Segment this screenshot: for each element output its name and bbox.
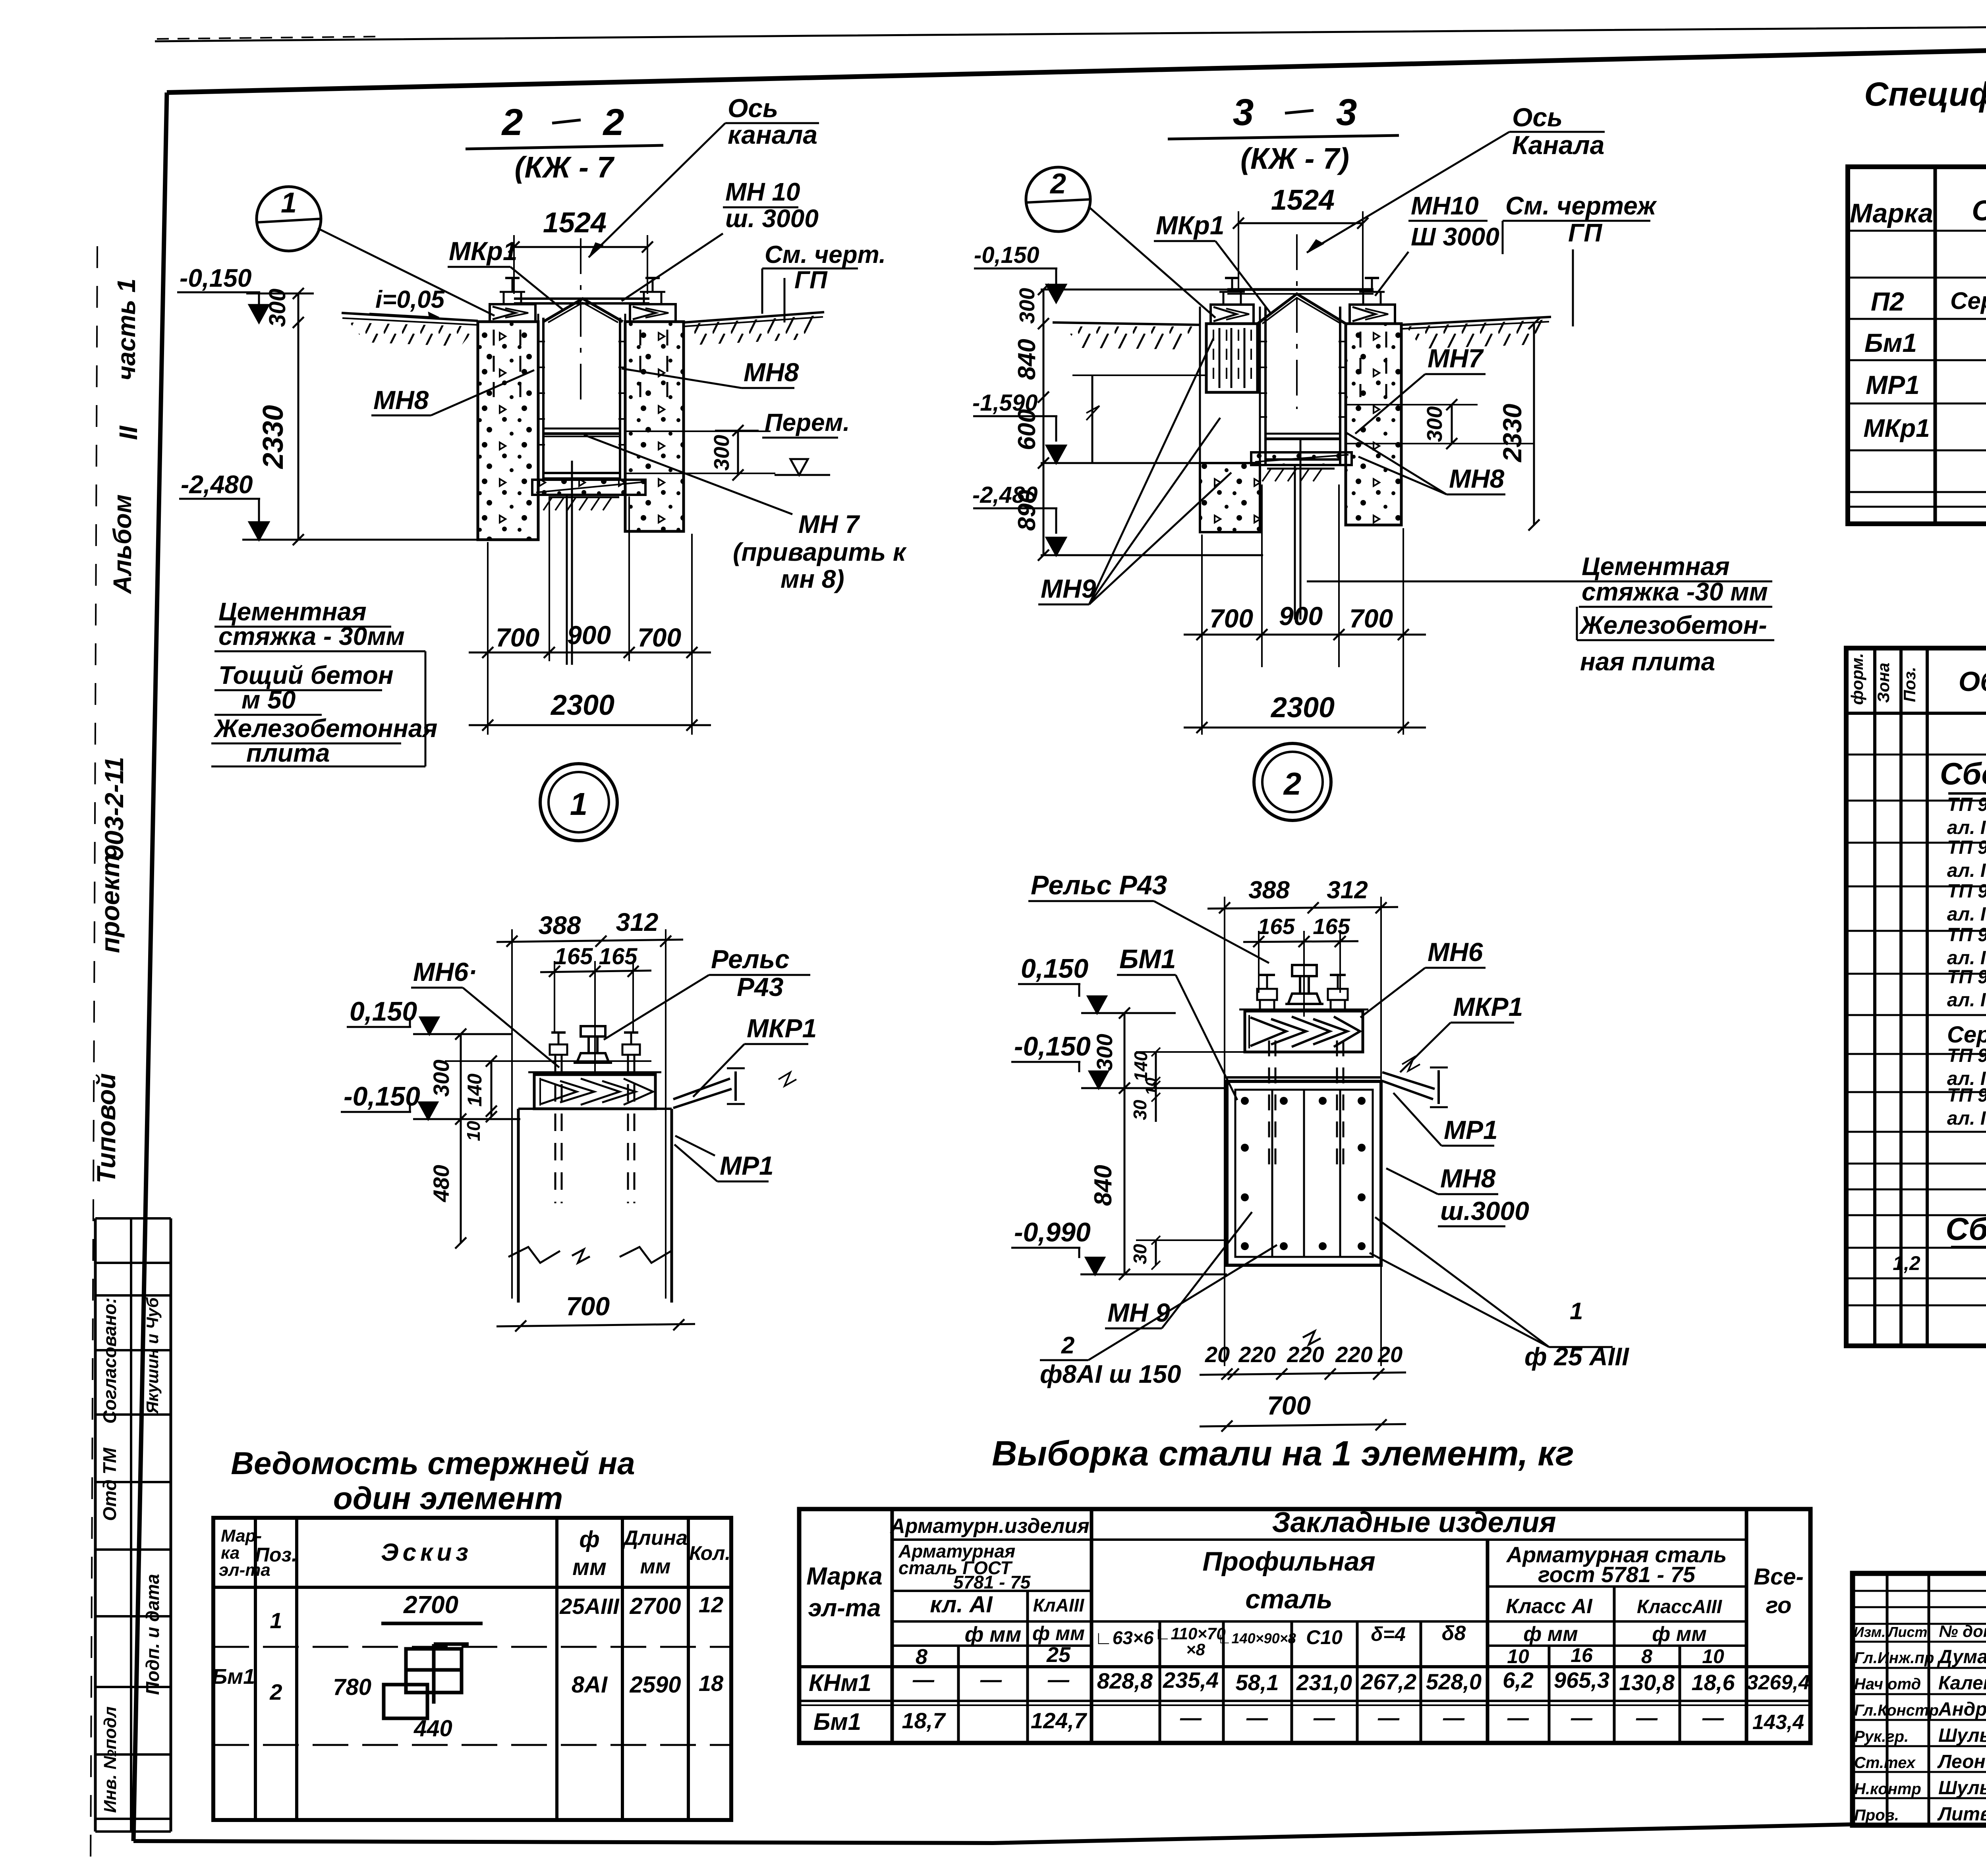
svg-text:Изм.: Изм. bbox=[1854, 1624, 1886, 1640]
svg-text:ф мм: ф мм bbox=[1652, 1623, 1706, 1646]
parts table grid bbox=[1846, 648, 1986, 1346]
section 2-2 inner beams МН7 bbox=[543, 428, 620, 478]
section 2-2 dim 300 right + Перем. bbox=[710, 409, 850, 481]
svg-text:Согласовано:: Согласовано: bbox=[99, 1297, 120, 1424]
svg-text:КлАIII: КлАIII bbox=[1033, 1595, 1085, 1615]
vyborka headers bbox=[806, 1507, 1804, 1669]
svg-text:—: — bbox=[1047, 1668, 1070, 1692]
section 3-3 drain pipe bbox=[1295, 439, 1300, 620]
svg-text:МН8: МН8 bbox=[373, 385, 429, 415]
svg-text:1524: 1524 bbox=[543, 207, 607, 239]
section 3-3 right concrete pier bbox=[1346, 324, 1401, 525]
detail 1 MP1 flange right bbox=[673, 1068, 796, 1156]
svg-text:ал. II ч.2: ал. II ч.2 bbox=[1947, 948, 1986, 969]
svg-text:-0,990: -0,990 bbox=[1014, 1217, 1091, 1247]
section 3-3 ground left bbox=[1053, 322, 1200, 349]
svg-text:Шульгина: Шульгина bbox=[1938, 1778, 1986, 1799]
parts row КЖ-8 Стержни одиночн bbox=[1893, 1246, 1986, 1275]
section 3-3 ground right bbox=[1401, 317, 1551, 349]
svg-text:965,3: 965,3 bbox=[1554, 1668, 1609, 1693]
detail 2 dims 165/165 bbox=[1243, 914, 1358, 1017]
svg-text:900: 900 bbox=[1279, 601, 1323, 631]
spec table row МР1 bbox=[1866, 365, 1986, 406]
svg-text:-2,480: -2,480 bbox=[181, 470, 253, 499]
label МР1 (detail 2) bbox=[1393, 1093, 1498, 1146]
svg-text:700: 700 bbox=[1209, 604, 1253, 633]
parts row МС1 bbox=[1947, 967, 1986, 1013]
svg-text:312: 312 bbox=[1327, 876, 1368, 904]
label Рельс Р43 (detail 2) bbox=[1028, 870, 1269, 963]
svg-text:Гл.Констр: Гл.Констр bbox=[1854, 1702, 1939, 1719]
label См. чертеж ГП (3-3) bbox=[1503, 191, 1657, 326]
svg-text:Марка: Марка bbox=[806, 1563, 882, 1590]
svg-text:2: 2 bbox=[269, 1679, 282, 1704]
label МН8 right (2-2) bbox=[622, 357, 799, 388]
svg-text:-0,150: -0,150 bbox=[974, 242, 1039, 268]
svg-text:10: 10 bbox=[463, 1121, 484, 1141]
vyborka row Бм1 bbox=[813, 1706, 1804, 1735]
detail 2 stirrup inner lines bbox=[1272, 1090, 1340, 1257]
svg-text:300: 300 bbox=[710, 435, 734, 471]
svg-text:ш. 3000: ш. 3000 bbox=[725, 204, 819, 233]
svg-text:МН8: МН8 bbox=[744, 357, 799, 387]
svg-text:Андриевская: Андриевская bbox=[1938, 1699, 1986, 1720]
svg-text:300: 300 bbox=[1092, 1034, 1117, 1071]
detail 1 dims 388/312 bbox=[496, 908, 683, 1299]
svg-text:Железобетон-: Железобетон- bbox=[1579, 611, 1767, 639]
label МН8 left (2-2) bbox=[371, 370, 534, 415]
svg-text:КНм1: КНм1 bbox=[809, 1669, 871, 1696]
svg-text:700: 700 bbox=[1267, 1391, 1311, 1420]
detail callout circle 1 bbox=[257, 187, 495, 316]
title block left column texts bbox=[1854, 1622, 1986, 1825]
detail 2 top plate and pad bbox=[1227, 1009, 1381, 1081]
label БМ1 (detail 2) bbox=[1117, 944, 1237, 1100]
svg-text:ф8АI ш 150: ф8АI ш 150 bbox=[1040, 1360, 1181, 1388]
detail 1 base plate bbox=[528, 1072, 661, 1109]
spec table title bbox=[1864, 75, 1986, 172]
svg-text:ал. II ч.2: ал. II ч.2 bbox=[1947, 860, 1986, 881]
svg-text:8: 8 bbox=[916, 1645, 927, 1669]
section 2-2 anchor dashes in piers bbox=[494, 330, 667, 397]
svg-text:КлассАIII: КлассАIII bbox=[1637, 1596, 1723, 1617]
svg-text:№ докум.: № докум. bbox=[1939, 1622, 1986, 1641]
svg-text:ТП 903-2-11: ТП 903-2-11 bbox=[1947, 924, 1986, 946]
vyborka row КНм1 bbox=[809, 1668, 1810, 1696]
svg-text:—: — bbox=[912, 1668, 935, 1692]
spec table grid bbox=[1848, 167, 1986, 524]
svg-text:Пров.: Пров. bbox=[1854, 1807, 1899, 1824]
label 2 ф8АI ш 150 (detail 2) bbox=[1040, 1245, 1277, 1388]
svg-text:143,4: 143,4 bbox=[1752, 1711, 1804, 1734]
section 3-3 anchor dashes right pier bbox=[1360, 332, 1386, 397]
svg-text:канала: канала bbox=[728, 120, 817, 149]
svg-text:2: 2 bbox=[501, 101, 523, 143]
svg-text:2300: 2300 bbox=[1270, 692, 1335, 724]
section 2-2 dim chain left (300 / 2330) bbox=[246, 288, 314, 545]
svg-text:i=0,05: i=0,05 bbox=[375, 286, 445, 313]
svg-text:8АI: 8АI bbox=[572, 1672, 608, 1698]
detail 1 anchor bolts bbox=[550, 1033, 640, 1203]
svg-text:δ=4: δ=4 bbox=[1371, 1623, 1406, 1645]
svg-text:Рельс: Рельс bbox=[711, 944, 790, 974]
svg-text:ГП: ГП bbox=[1568, 218, 1603, 247]
svg-text:6,2: 6,2 bbox=[1503, 1668, 1534, 1693]
svg-text:18,6: 18,6 bbox=[1692, 1670, 1735, 1695]
svg-text:2: 2 bbox=[1283, 766, 1302, 801]
svg-text:10: 10 bbox=[1507, 1645, 1529, 1668]
svg-text:Класс АI: Класс АI bbox=[1506, 1595, 1593, 1618]
svg-text:235,4: 235,4 bbox=[1163, 1668, 1219, 1693]
svg-text:ф: ф bbox=[579, 1527, 599, 1552]
svg-text:1: 1 bbox=[570, 786, 588, 822]
svg-text:∟140×90×8: ∟140×90×8 bbox=[1217, 1630, 1296, 1646]
svg-text:—: — bbox=[1571, 1706, 1593, 1730]
section 2-2 bottom slab bbox=[532, 480, 645, 510]
parts row МН8 bbox=[1947, 881, 1986, 925]
section 3-3 inner beams МН7/МН8 bbox=[1265, 434, 1340, 465]
svg-text:0,150: 0,150 bbox=[350, 996, 417, 1027]
label МКР1 (detail 2) bbox=[1400, 992, 1523, 1072]
svg-text:-0,150: -0,150 bbox=[1014, 1031, 1091, 1062]
svg-text:0,150: 0,150 bbox=[1021, 953, 1088, 984]
svg-text:1,2: 1,2 bbox=[1893, 1252, 1920, 1274]
vyborka title bbox=[992, 1434, 1574, 1473]
svg-text:Ось: Ось bbox=[728, 93, 778, 123]
svg-text:Ш 3000: Ш 3000 bbox=[1411, 222, 1499, 251]
label МН 10 ш.3000 (2-2) bbox=[622, 178, 819, 301]
svg-text:Серия: Серия bbox=[1947, 1022, 1986, 1048]
svg-text:124,7: 124,7 bbox=[1031, 1708, 1088, 1733]
label МН8 ш.3000 (detail 2) bbox=[1386, 1164, 1529, 1226]
label МН7 приварить к мн8 (2-2) bbox=[584, 435, 907, 593]
svg-text:-2,480: -2,480 bbox=[972, 482, 1037, 508]
parts row МН36 bbox=[1947, 1085, 1986, 1132]
svg-text:267,2: 267,2 bbox=[1360, 1669, 1416, 1694]
title block grid bbox=[1853, 1573, 1986, 1825]
section 2-2 drain pipe bbox=[567, 461, 572, 665]
svg-text:Рук.гр.: Рук.гр. bbox=[1854, 1728, 1909, 1745]
svg-text:Литвинова: Литвинова bbox=[1937, 1804, 1986, 1825]
svg-text:18: 18 bbox=[699, 1671, 724, 1696]
svg-text:го: го bbox=[1766, 1592, 1792, 1618]
svg-text:Р43: Р43 bbox=[737, 972, 783, 1002]
svg-text:δ8: δ8 bbox=[1442, 1622, 1466, 1645]
svg-text:2700: 2700 bbox=[403, 1591, 458, 1619]
label Рельс Р43 (detail 1) bbox=[604, 944, 810, 1040]
svg-text:700: 700 bbox=[566, 1291, 610, 1321]
left stamp boxes column bbox=[95, 1218, 171, 1832]
label МН7 (3-3) bbox=[1355, 344, 1486, 434]
svg-text:2300: 2300 bbox=[550, 689, 614, 721]
svg-text:МР1: МР1 bbox=[1444, 1115, 1498, 1145]
svg-text:Ст.тех: Ст.тех bbox=[1854, 1754, 1916, 1772]
svg-text:МН6·: МН6· bbox=[413, 957, 477, 986]
svg-text:Якушин и Чуб: Якушин и Чуб bbox=[143, 1297, 162, 1414]
parts table headers bbox=[1848, 653, 1986, 705]
svg-text:один элемент: один элемент bbox=[333, 1480, 563, 1516]
svg-text:МН9: МН9 bbox=[1041, 574, 1096, 603]
svg-text:∟63×6: ∟63×6 bbox=[1095, 1627, 1154, 1648]
svg-text:—: — bbox=[1246, 1706, 1268, 1730]
svg-text:388: 388 bbox=[539, 911, 581, 940]
svg-text:Эскиз: Эскиз bbox=[381, 1539, 472, 1566]
svg-text:2700: 2700 bbox=[629, 1593, 681, 1619]
section 3-3 wall ticks bbox=[1259, 342, 1347, 417]
svg-text:Думан: Думан bbox=[1937, 1646, 1986, 1668]
svg-text:Арматурн.изделия: Арматурн.изделия bbox=[889, 1515, 1090, 1538]
svg-text:300: 300 bbox=[1423, 406, 1447, 442]
section 3-3 channel walls bbox=[1265, 307, 1340, 465]
svg-text:—: — bbox=[1636, 1706, 1658, 1730]
svg-text:Выборка стали на 1 эле: Выборка стали на 1 элемент, кг bbox=[992, 1434, 1574, 1473]
svg-text:440: 440 bbox=[413, 1716, 452, 1741]
svg-text:2: 2 bbox=[1049, 168, 1066, 200]
detail 1 level 0,150 bbox=[347, 996, 512, 1034]
detail 2 MP1 flange right bbox=[1382, 1057, 1448, 1107]
svg-text:Канала: Канала bbox=[1512, 130, 1604, 160]
svg-text:эл-та: эл-та bbox=[808, 1594, 881, 1622]
svg-text:140: 140 bbox=[464, 1073, 486, 1107]
section 2-2 wall ticks bbox=[537, 342, 775, 473]
label МН10 Ш3000 (3-3) bbox=[1375, 191, 1499, 296]
svg-text:Обозначение: Обозначение bbox=[1972, 195, 1986, 227]
svg-text:ал. II ч.2: ал. II ч.2 bbox=[1947, 990, 1986, 1011]
section 3-3 wood pad right bbox=[1350, 278, 1395, 324]
detail 2 level 0,150 bbox=[1018, 953, 1176, 1013]
detail 2 break mark bbox=[1303, 1331, 1321, 1345]
section 2-2 dim 1524 bbox=[508, 207, 653, 294]
parts row Серия 3.400-6 bbox=[1947, 1007, 1986, 1053]
section 3-3 level -0,150 bbox=[974, 242, 1227, 302]
detail 1 pier body bbox=[508, 1109, 672, 1303]
detail 1 bottom break and dim 700 bbox=[496, 1249, 695, 1332]
svg-text:Нач отд: Нач отд bbox=[1854, 1675, 1921, 1693]
svg-text:165: 165 bbox=[1313, 914, 1350, 939]
svg-text:МН 9: МН 9 bbox=[1107, 1298, 1170, 1327]
vedomost title bbox=[231, 1446, 635, 1516]
svg-text:Цементная: Цементная bbox=[1582, 552, 1730, 581]
svg-text:Сборочные единицы и детали: Сборочные единицы и детали bbox=[1940, 756, 1986, 791]
svg-text:Поз.: Поз. bbox=[1900, 667, 1919, 702]
parts row МН9 bbox=[1947, 924, 1986, 969]
left vertical sheet label: Типовой проект 903-2-11 Альбом II часть 1 bbox=[91, 278, 143, 1183]
svg-text:231,0: 231,0 bbox=[1296, 1670, 1352, 1695]
svg-text:С10: С10 bbox=[1306, 1626, 1343, 1648]
svg-text:840: 840 bbox=[1013, 339, 1041, 380]
section 3-3 dim chain left (300/840/600/890) bbox=[1013, 284, 1049, 561]
svg-text:ТП 903-2-11: ТП 903-2-11 bbox=[1947, 794, 1986, 815]
svg-text:—: — bbox=[1507, 1706, 1529, 1730]
section 3-3 title bbox=[1168, 91, 1399, 175]
svg-text:312: 312 bbox=[616, 908, 659, 936]
label 1 ф 25 АIII (detail 2) bbox=[1370, 1217, 1629, 1371]
svg-text:ал. II ч.2: ал. II ч.2 bbox=[1947, 904, 1986, 925]
detail 2 rail clamps bbox=[1257, 975, 1348, 1011]
svg-text:2: 2 bbox=[1061, 1332, 1074, 1359]
detail 1 circle bbox=[540, 764, 617, 841]
section 2-2 right concrete pier bbox=[625, 322, 684, 531]
section 3-3 axis dash line bbox=[1296, 234, 1298, 409]
svg-text:Ведомость стержней на: Ведомость стержней на bbox=[231, 1446, 635, 1481]
svg-text:МКР1: МКР1 bbox=[747, 1013, 817, 1043]
svg-text:—: — bbox=[1313, 1706, 1335, 1730]
svg-text:8: 8 bbox=[1641, 1645, 1652, 1668]
section 2-2 axis center line bbox=[580, 238, 582, 409]
svg-text:ка: ка bbox=[221, 1543, 240, 1563]
detail 2 dim chain 300/840 bbox=[1090, 1007, 1130, 1280]
section 2-2 level -2,480 bbox=[179, 470, 478, 540]
svg-text:Спецификация элементов к м: Спецификация элементов к маркировочным bbox=[1864, 75, 1986, 113]
section 3-3 wood pad left bbox=[1211, 278, 1254, 324]
svg-text:25: 25 bbox=[1046, 1643, 1071, 1667]
svg-text:480: 480 bbox=[429, 1165, 454, 1202]
svg-text:300: 300 bbox=[1015, 288, 1039, 324]
svg-text:Перем.: Перем. bbox=[765, 409, 850, 436]
section 3-3 aux dim line with break bbox=[1072, 375, 1206, 463]
svg-text:388: 388 bbox=[1248, 876, 1290, 904]
svg-text:700: 700 bbox=[1349, 604, 1393, 633]
svg-text:ф мм: ф мм bbox=[1032, 1622, 1085, 1644]
svg-text:Калетов: Калетов bbox=[1938, 1673, 1986, 1694]
vyborka grid bbox=[799, 1509, 1810, 1743]
svg-text:25АIII: 25АIII bbox=[559, 1594, 620, 1619]
section 3-3 dim 1524 bbox=[1233, 184, 1368, 288]
svg-text:300: 300 bbox=[265, 289, 290, 327]
vedomost headers bbox=[219, 1526, 730, 1580]
svg-text:—: — bbox=[1180, 1706, 1202, 1730]
svg-text:903-2-11: 903-2-11 bbox=[99, 757, 129, 860]
svg-text:мм: мм bbox=[640, 1555, 671, 1578]
vedomost row 1 bbox=[270, 1591, 723, 1633]
svg-text:См. чертеж: См. чертеж bbox=[1505, 191, 1657, 220]
section 3-3 bottom dimensions bbox=[1184, 484, 1426, 735]
svg-text:мм: мм bbox=[572, 1554, 607, 1580]
svg-text:Обозначение: Обозначение bbox=[1959, 666, 1986, 697]
svg-text:МН7: МН7 bbox=[1428, 344, 1484, 373]
detail 2 anchor bolts dashed bbox=[1269, 1040, 1343, 1168]
label МН8 (3-3) bbox=[1347, 433, 1505, 494]
svg-text:ф 25 АIII: ф 25 АIII bbox=[1524, 1342, 1629, 1371]
svg-text:МР1: МР1 bbox=[1866, 370, 1920, 400]
svg-text:16: 16 bbox=[1571, 1644, 1593, 1666]
svg-text:10: 10 bbox=[1143, 1078, 1160, 1096]
section 2-2 wood pad right bbox=[630, 278, 676, 322]
svg-text:Типовой: Типовой bbox=[91, 1073, 121, 1183]
label МН6 (detail 2) bbox=[1360, 937, 1486, 1017]
svg-text:2330: 2330 bbox=[1497, 403, 1527, 463]
svg-text:2: 2 bbox=[603, 101, 624, 143]
svg-text:18,7: 18,7 bbox=[902, 1708, 947, 1733]
svg-text:Сборочные единицы и детали: Сборочные единицы и детали bbox=[1945, 1211, 1986, 1247]
svg-text:Лист: Лист bbox=[1887, 1624, 1928, 1640]
svg-text:БМ1: БМ1 bbox=[1119, 944, 1176, 974]
svg-text:часть 1: часть 1 bbox=[112, 278, 141, 380]
svg-text:Бм1: Бм1 bbox=[1864, 328, 1917, 357]
svg-text:МКр1: МКр1 bbox=[449, 236, 518, 266]
svg-text:30: 30 bbox=[1130, 1244, 1150, 1264]
spec table row МКр1 bbox=[1863, 408, 1986, 452]
spec table row П2 bbox=[1871, 285, 1986, 316]
svg-text:165: 165 bbox=[1258, 914, 1295, 939]
section 2-2 channel walls bbox=[538, 314, 625, 540]
svg-text:форм.: форм. bbox=[1848, 653, 1866, 705]
vedomost row 2 bbox=[212, 1644, 724, 1741]
svg-text:Гл.Инж.пр: Гл.Инж.пр bbox=[1854, 1649, 1934, 1667]
label МН6 (detail 1) bbox=[411, 957, 559, 1067]
svg-text:Рельс Р43: Рельс Р43 bbox=[1031, 870, 1167, 900]
spec table row Бм1 bbox=[1864, 326, 1986, 357]
section 3-3 top cover bbox=[1227, 290, 1374, 324]
svg-text:—: — bbox=[1377, 1706, 1400, 1730]
svg-text:-0,150: -0,150 bbox=[344, 1081, 420, 1112]
svg-text:Ось: Ось bbox=[1512, 102, 1563, 132]
svg-text:МР1: МР1 bbox=[720, 1151, 774, 1180]
spec table header texts bbox=[1850, 193, 1986, 228]
svg-text:ГП: ГП bbox=[794, 266, 828, 294]
svg-text:3269,4: 3269,4 bbox=[1746, 1671, 1810, 1694]
svg-text:2590: 2590 bbox=[629, 1672, 681, 1698]
label MKp1 (2-2) bbox=[448, 236, 564, 311]
svg-text:Закладные изделия: Закладные изделия bbox=[1272, 1507, 1556, 1538]
svg-text:Инв. №подл: Инв. №подл bbox=[100, 1706, 120, 1813]
detail 1 rail bbox=[574, 1026, 612, 1063]
svg-text:Все-: Все- bbox=[1754, 1564, 1804, 1590]
svg-text:—: — bbox=[980, 1668, 1002, 1692]
svg-text:5781 - 75: 5781 - 75 bbox=[953, 1572, 1031, 1592]
label МР1 (detail 1) bbox=[674, 1145, 774, 1181]
svg-text:Н.контр: Н.контр bbox=[1854, 1780, 1921, 1798]
section 2-2 top cover (MKp1) bbox=[514, 299, 649, 322]
svg-text:МН6: МН6 bbox=[1428, 937, 1484, 967]
svg-text:Профильная: Профильная bbox=[1202, 1546, 1375, 1577]
svg-text:ТП 903-2-11: ТП 903-2-11 bbox=[1947, 1045, 1986, 1066]
svg-text:220: 220 bbox=[1238, 1342, 1275, 1367]
left margin dashed scan line bbox=[91, 246, 97, 1866]
svg-text:—: — bbox=[1702, 1706, 1724, 1730]
svg-text:МН 10: МН 10 bbox=[725, 178, 800, 206]
svg-text:ал. II ч.2: ал. II ч.2 bbox=[1947, 817, 1986, 838]
section 2-2 level -0,150 bbox=[177, 264, 269, 322]
parts subtitle 2 Сборочные единицы и детали bbox=[1945, 1211, 1986, 1247]
svg-text:МН8: МН8 bbox=[1449, 464, 1505, 493]
section 2-2 slope annotation i=0.05 bbox=[369, 286, 445, 318]
label МКР1 (detail 1) bbox=[693, 1013, 817, 1097]
svg-text:кл. АI: кл. АI bbox=[930, 1592, 993, 1617]
detail 2 rebar dots bbox=[1241, 1097, 1366, 1250]
svg-text:(КЖ - 7: (КЖ - 7 bbox=[515, 151, 615, 184]
svg-text:(КЖ - 7): (КЖ - 7) bbox=[1240, 142, 1349, 175]
svg-text:2330: 2330 bbox=[257, 405, 289, 469]
detail 2 dims 20/220/220/220/20 bbox=[1200, 1342, 1406, 1380]
svg-text:30: 30 bbox=[1130, 1100, 1150, 1120]
svg-text:528,0: 528,0 bbox=[1426, 1669, 1482, 1694]
svg-text:МН 7: МН 7 bbox=[798, 510, 860, 538]
svg-text:Альбом: Альбом bbox=[108, 494, 137, 594]
section 2-2 title bbox=[466, 101, 663, 184]
svg-text:сталь: сталь bbox=[1245, 1584, 1333, 1614]
detail 2 level -0,150 bbox=[1011, 1031, 1227, 1088]
svg-text:См. черт.: См. черт. bbox=[765, 241, 886, 268]
svg-text:МКР1: МКР1 bbox=[1453, 992, 1523, 1021]
svg-text:Леонова: Леонова bbox=[1937, 1751, 1986, 1772]
section 2-2 wood pad left bbox=[490, 278, 535, 322]
detail 2 dims 388/312 bbox=[1207, 876, 1398, 1366]
detail 1 dim chains left bbox=[429, 1029, 651, 1249]
svg-text:мн 8): мн 8) bbox=[780, 565, 844, 593]
svg-text:140: 140 bbox=[1130, 1051, 1151, 1081]
detail 2 level -0,990 bbox=[1011, 1217, 1227, 1274]
